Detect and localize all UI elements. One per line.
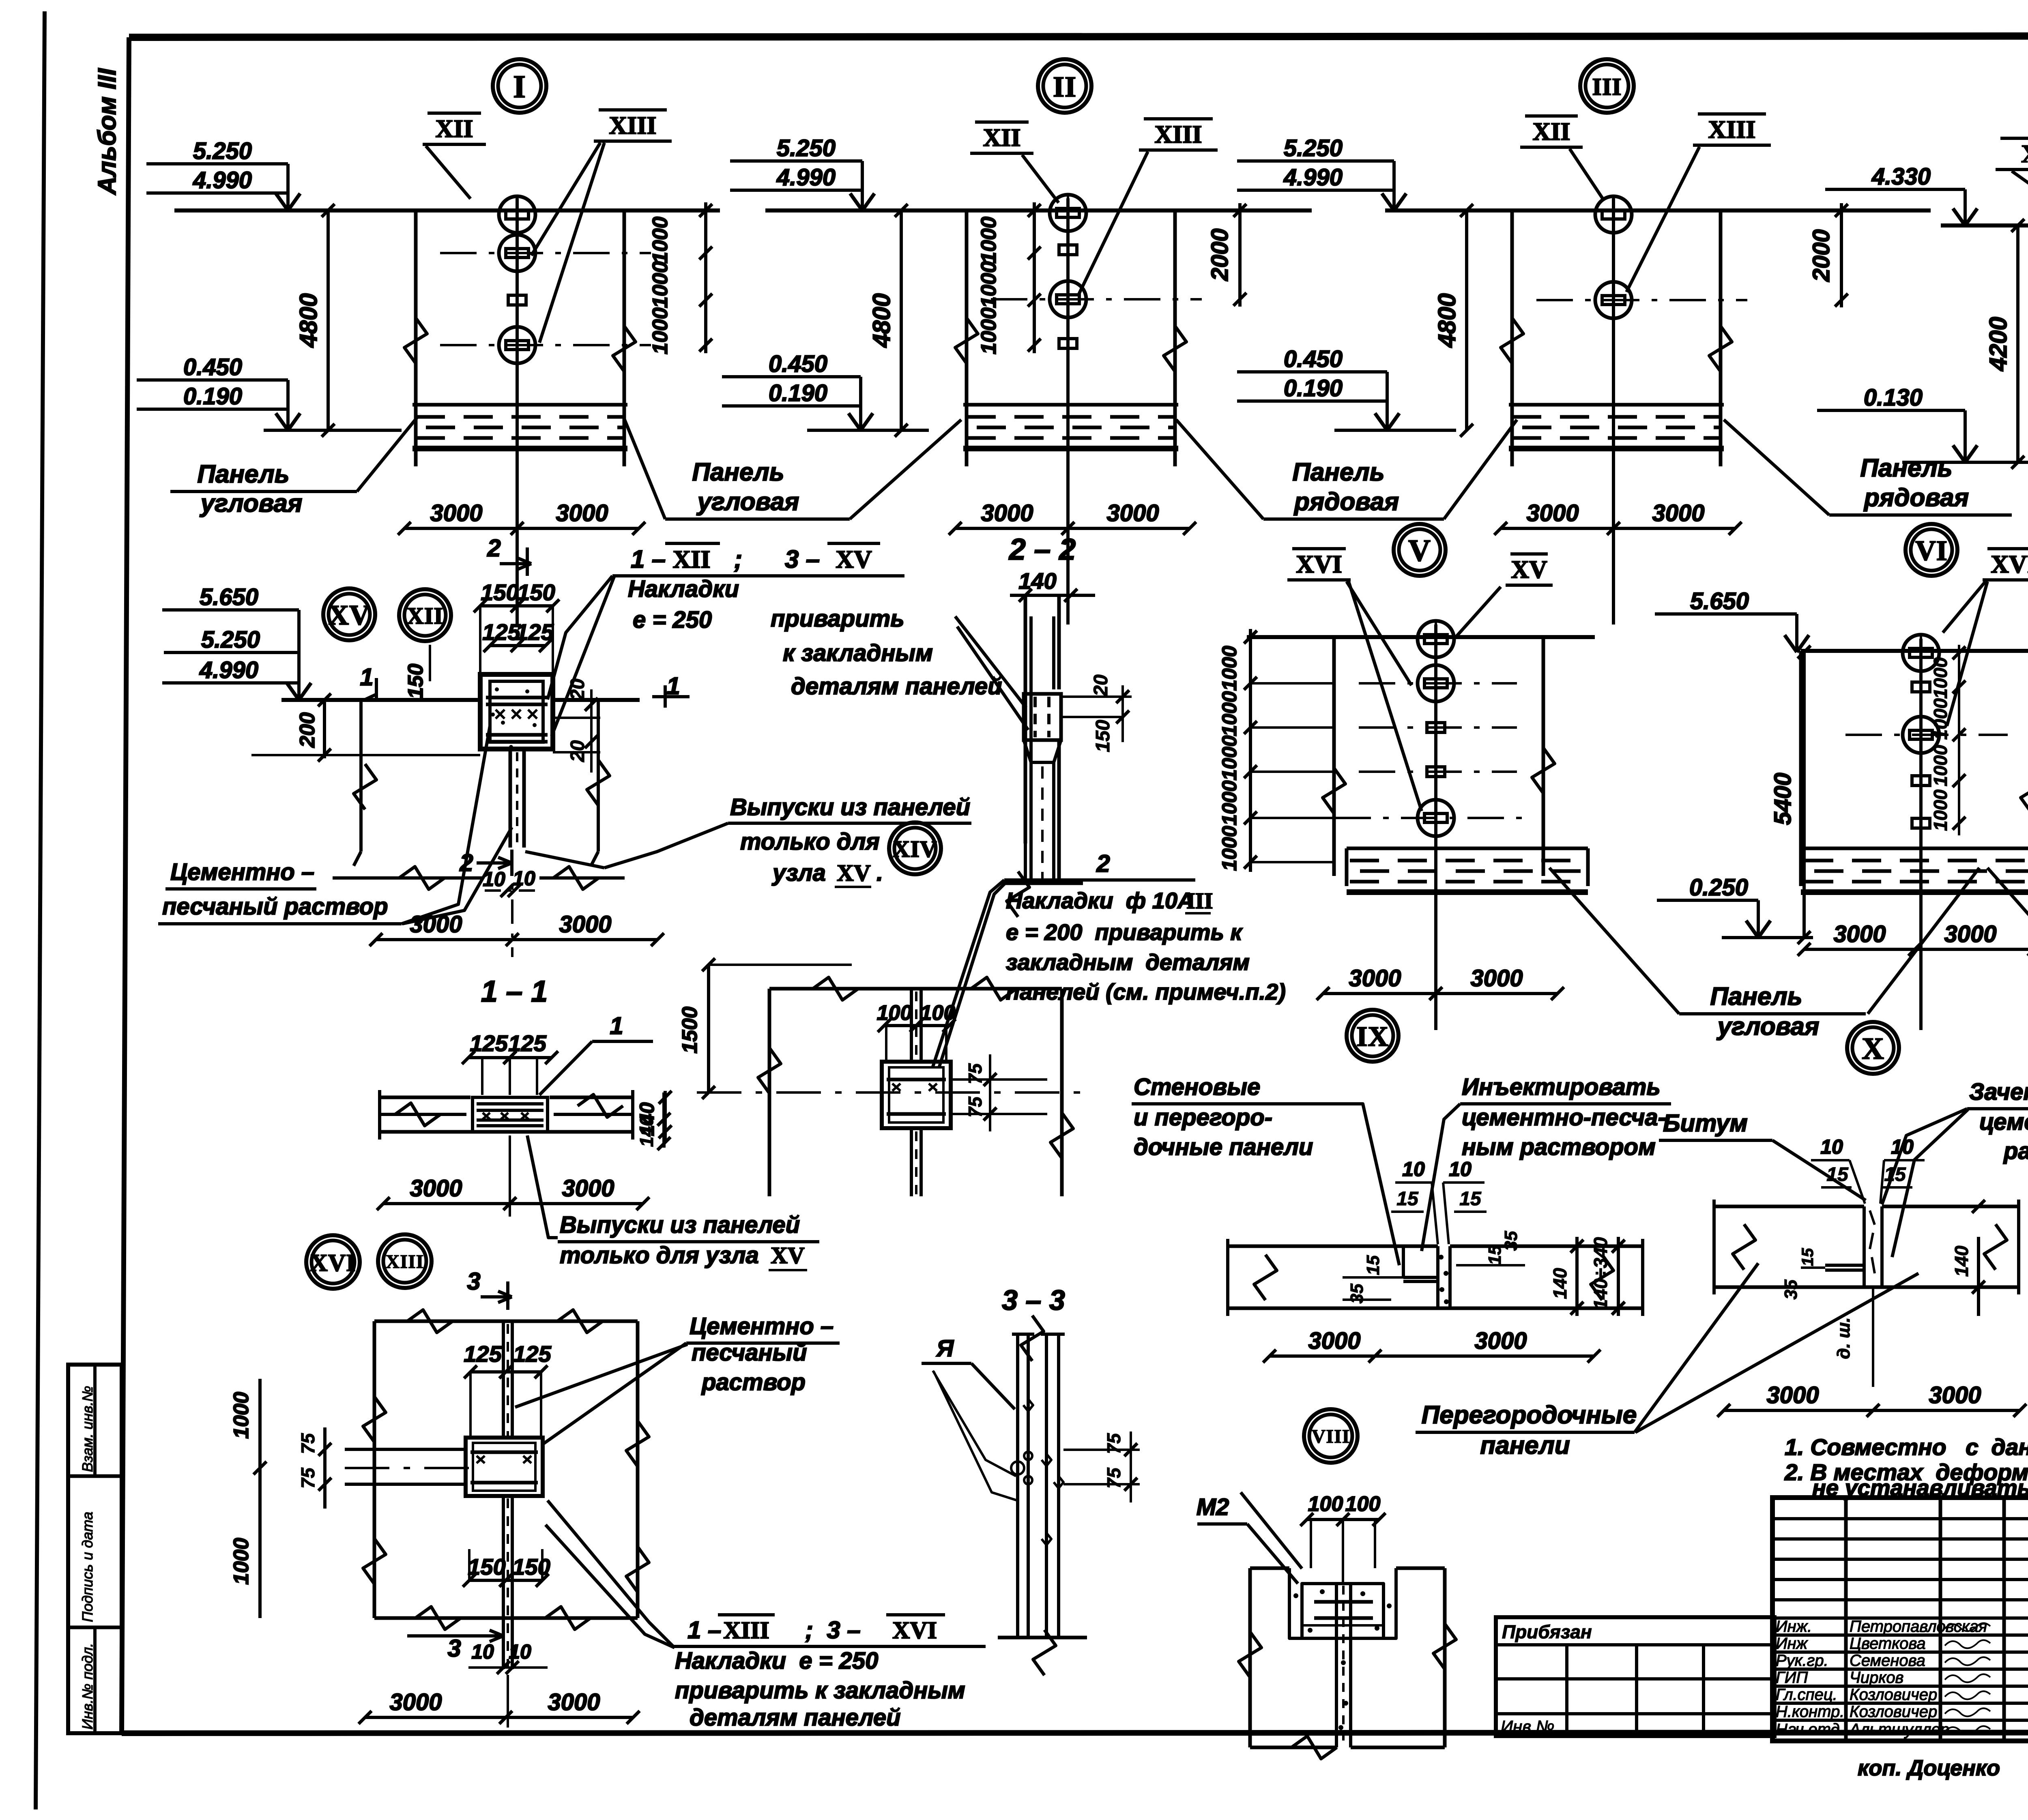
svg-text:150: 150 xyxy=(512,1554,550,1580)
detail IX panel band xyxy=(1228,1245,1438,1248)
view III water band xyxy=(1509,403,1724,407)
svg-text:Козловичер: Козловичер xyxy=(1850,1686,1937,1704)
svg-text:10: 10 xyxy=(509,1640,531,1663)
svg-text:XII: XII xyxy=(435,115,473,143)
svg-text:3000: 3000 xyxy=(1833,921,1886,947)
view I wall top line xyxy=(174,208,720,212)
svg-text:e = 250: e = 250 xyxy=(633,607,712,633)
svg-text:Цементно –: Цементно – xyxy=(170,859,314,885)
svg-text:2000: 2000 xyxy=(1808,229,1835,282)
svg-text:раствор: раствор xyxy=(701,1369,806,1395)
svg-text:Петропавловская: Петропавловская xyxy=(1850,1618,1987,1635)
svg-text:10: 10 xyxy=(483,868,505,891)
svg-text:XIV: XIV xyxy=(893,836,937,862)
view II wall top line xyxy=(765,208,1312,212)
view I anchor at 624 xyxy=(499,235,535,271)
svg-text:Зачеканить асбесто-: Зачеканить асбесто- xyxy=(1969,1079,2028,1105)
node badge XVI xyxy=(306,1235,360,1289)
svg-text:XV: XV xyxy=(836,546,872,573)
svg-text:5.650: 5.650 xyxy=(200,584,258,610)
svg-text:цементным: цементным xyxy=(1979,1109,2028,1135)
view V water band xyxy=(1347,847,1588,850)
view V centerline xyxy=(1434,625,1437,1030)
svg-text:XII: XII xyxy=(672,546,710,573)
svg-text:XV: XV xyxy=(837,860,871,886)
svg-text:3000: 3000 xyxy=(1474,1328,1527,1354)
view I 1000 spacing dim xyxy=(704,202,707,353)
svg-text:только для: только для xyxy=(740,828,880,855)
svg-text:Инъектировать: Инъектировать xyxy=(1462,1074,1661,1100)
section 2-2 joint xyxy=(1024,694,1061,740)
signature squiggles xyxy=(1945,1623,1990,1734)
view I dash-dot axis 851 xyxy=(440,344,651,346)
svg-text:10: 10 xyxy=(1449,1158,1472,1180)
detail XIV grout strip vertical xyxy=(910,989,913,1062)
left attachment table pribyazan xyxy=(1496,1617,1774,1736)
view III anchor at 529 xyxy=(1595,196,1632,233)
svg-text:Козловичер: Козловичер xyxy=(1850,1703,1937,1721)
svg-text:панели: панели xyxy=(1480,1432,1570,1459)
svg-text:Панель: Панель xyxy=(1292,458,1384,486)
svg-text:коп. Доценко: коп. Доценко xyxy=(1858,1756,2000,1780)
section 2-2 baseline xyxy=(1002,882,1083,885)
svg-text:XII: XII xyxy=(983,124,1020,152)
svg-text:XVI: XVI xyxy=(310,1249,356,1276)
svg-text:1 – 1: 1 – 1 xyxy=(481,974,548,1008)
detail IX dim 15 35 right xyxy=(1456,1264,1525,1266)
svg-text:2: 2 xyxy=(487,534,501,562)
detail XV-XII bottom dim 3000 3000 xyxy=(376,938,657,941)
svg-text:XII: XII xyxy=(1532,118,1570,146)
svg-text:VIII: VIII xyxy=(1312,1426,1350,1447)
svg-text:1 –: 1 – xyxy=(631,545,666,573)
section 2-2 leaders from text xyxy=(955,616,1026,708)
svg-text:15: 15 xyxy=(1396,1188,1419,1210)
view V anchors xyxy=(1418,621,1454,657)
svg-text:0.190: 0.190 xyxy=(1284,375,1343,401)
svg-text:1500: 1500 xyxy=(678,1007,702,1054)
svg-text:закладным деталям: закладным деталям xyxy=(1006,949,1250,975)
svg-text:;: ; xyxy=(734,545,743,573)
svg-text:3000: 3000 xyxy=(1652,500,1704,526)
node badge V xyxy=(1394,524,1446,576)
section 1-1 leader to vypuski text xyxy=(527,1135,558,1238)
svg-text:4.990: 4.990 xyxy=(1283,164,1343,191)
view V left spacing dim 1000x5 xyxy=(1249,629,1252,872)
svg-text:35: 35 xyxy=(1781,1279,1801,1299)
svg-text:2: 2 xyxy=(459,849,473,876)
svg-text:1000: 1000 xyxy=(1930,789,1951,831)
title block personnel rows xyxy=(1772,1616,2028,1620)
svg-text:Накладки: Накладки xyxy=(628,576,739,602)
svg-text:75: 75 xyxy=(965,1063,986,1084)
svg-text:.: . xyxy=(877,860,883,886)
view II bottom dimension 3000+3000 xyxy=(955,527,1190,530)
svg-text:XV: XV xyxy=(1511,556,1547,584)
svg-text:деталям панелей: деталям панелей xyxy=(690,1704,901,1731)
svg-text:рядовая: рядовая xyxy=(1863,484,1969,512)
svg-text:угловая: угловая xyxy=(1716,1013,1820,1041)
view I water band xyxy=(412,403,627,407)
svg-text:Панель: Панель xyxy=(692,458,784,486)
svg-text:1000: 1000 xyxy=(649,217,672,264)
svg-text:3000: 3000 xyxy=(1526,500,1579,526)
svg-text:140÷340: 140÷340 xyxy=(1590,1237,1611,1309)
svg-text:10: 10 xyxy=(1820,1135,1843,1158)
svg-text:только для узла: только для узла xyxy=(560,1242,759,1268)
svg-text:3000: 3000 xyxy=(1308,1328,1360,1354)
svg-text:Выпуски из панелей: Выпуски из панелей xyxy=(560,1212,800,1238)
detail XVI-XIII left dims 1000 1000 75 75 xyxy=(258,1379,262,1618)
dim 5400 xyxy=(1802,652,1806,938)
detail XV-XII grout column below joint xyxy=(509,749,512,848)
svg-text:3000: 3000 xyxy=(559,911,611,938)
detail XIV centerline horizontal xyxy=(697,1091,1087,1094)
svg-text:0.130: 0.130 xyxy=(1864,384,1923,411)
svg-text:XIV: XIV xyxy=(2021,140,2028,168)
svg-text:XV: XV xyxy=(328,600,370,631)
svg-text:I: I xyxy=(513,69,526,105)
view II anchor at 525 xyxy=(1050,195,1086,231)
sheet outer left edge line xyxy=(36,11,45,1809)
svg-text:3000: 3000 xyxy=(1349,965,1401,992)
view I height dim 4800 xyxy=(327,210,330,430)
svg-text:15: 15 xyxy=(1799,1248,1817,1266)
svg-text:3000: 3000 xyxy=(562,1175,614,1202)
svg-text:3000: 3000 xyxy=(1106,500,1159,526)
svg-text:Инж.: Инж. xyxy=(1776,1618,1812,1635)
svg-text:5400: 5400 xyxy=(1770,773,1796,825)
svg-text:5.250: 5.250 xyxy=(201,627,260,653)
view II panel right edge xyxy=(1173,210,1177,462)
node badge X xyxy=(1847,1022,1899,1074)
view III bottom dimension 3000+3000 xyxy=(1501,527,1735,530)
svg-text:3: 3 xyxy=(447,1635,461,1662)
svg-text:1 –: 1 – xyxy=(687,1616,721,1644)
svg-text:75: 75 xyxy=(1103,1467,1124,1489)
view VI dash axes xyxy=(1845,734,2008,736)
svg-text:ГИП: ГИП xyxy=(1776,1669,1808,1687)
svg-text:1000: 1000 xyxy=(1218,646,1241,691)
view V dash axes xyxy=(1359,682,1517,685)
label peregorodochnye paneli for VIII xyxy=(1241,1492,1302,1569)
section 3-3 dims 75 75 xyxy=(1063,1449,1140,1451)
svg-text:100: 100 xyxy=(1308,1492,1343,1516)
view V panel edges xyxy=(1332,637,1336,876)
view VI anchors xyxy=(1903,635,1939,671)
svg-text:2 – 2: 2 – 2 xyxy=(1008,532,1076,566)
node badge II xyxy=(1038,59,1091,113)
svg-text:15: 15 xyxy=(1363,1255,1383,1275)
node badge I xyxy=(493,59,546,113)
detail XVI-XIII panel face rect xyxy=(374,1320,638,1323)
svg-text:VI: VI xyxy=(1915,535,1948,567)
svg-text:к закладным: к закладным xyxy=(783,640,933,666)
svg-text:Панель: Панель xyxy=(1710,983,1802,1011)
svg-text:4800: 4800 xyxy=(295,293,322,348)
svg-text:0.450: 0.450 xyxy=(1284,346,1343,372)
section 2-2 legs below xyxy=(1029,762,1033,882)
node badge VIII xyxy=(1304,1409,1358,1463)
svg-text:Цветкова: Цветкова xyxy=(1850,1635,1926,1653)
detail VIII panel rect xyxy=(1250,1567,1289,1570)
svg-text:М2: М2 xyxy=(1197,1494,1229,1520)
detail X bottom dim 3000 3000 xyxy=(1724,1409,2020,1412)
svg-text:Инв.№: Инв.№ xyxy=(1501,1717,1554,1736)
svg-text:3000: 3000 xyxy=(389,1689,442,1715)
view I panel left edge xyxy=(414,210,418,462)
svg-text:Альбом III: Альбом III xyxy=(93,68,121,195)
view VI bottom dim 3000 3000 xyxy=(1804,948,2028,951)
svg-text:угловая: угловая xyxy=(696,488,799,516)
svg-text:Инж: Инж xyxy=(1776,1635,1808,1653)
view I lower ref line xyxy=(264,429,402,432)
view III right dim 2000 xyxy=(1840,203,1843,307)
svg-text:125: 125 xyxy=(513,1341,551,1367)
svg-text:Выпуски из панелей: Выпуски из панелей xyxy=(730,794,970,820)
svg-text:4200: 4200 xyxy=(1985,317,2012,371)
svg-text:приварить: приварить xyxy=(771,605,904,632)
svg-text:5.650: 5.650 xyxy=(1690,588,1749,614)
svg-text:Прибязан: Прибязан xyxy=(1502,1621,1592,1642)
svg-text:1: 1 xyxy=(360,663,373,691)
detail XIV dim 140 xyxy=(662,1092,666,1148)
detail XIV panel face rect xyxy=(769,987,1062,991)
svg-text:1000: 1000 xyxy=(1930,698,1951,740)
svg-text:1000: 1000 xyxy=(230,1538,253,1585)
view II anchor at 738 xyxy=(1050,281,1086,318)
svg-text:Панель: Панель xyxy=(1860,454,1952,482)
sheet inner frame top border (thick) xyxy=(129,36,2028,37)
svg-text:150: 150 xyxy=(404,664,428,699)
left stamp column table xyxy=(68,1365,122,1733)
svg-text:35: 35 xyxy=(1501,1231,1521,1251)
view VI wall top line xyxy=(1801,649,2028,653)
svg-text:1000: 1000 xyxy=(649,261,672,308)
svg-text:15: 15 xyxy=(1826,1164,1849,1185)
detail XV-XII break marks xyxy=(354,764,376,809)
svg-text:200: 200 xyxy=(296,713,319,748)
svg-text:10: 10 xyxy=(1891,1135,1914,1158)
section 1-1 bottom dim 3000 3000 xyxy=(383,1202,643,1205)
detail IX right dims 140 140-340 xyxy=(1575,1237,1579,1316)
view IV lower ref line xyxy=(1902,461,2028,464)
view I anchor at 851 xyxy=(499,327,535,363)
section 1-1 panel band xyxy=(380,1096,470,1099)
view II panel centerline xyxy=(1066,198,1070,625)
view II dash-dot axis 738 xyxy=(991,298,1202,300)
svg-text:5.250: 5.250 xyxy=(777,135,836,161)
svg-text:XVI: XVI xyxy=(1991,551,2028,578)
section 2-2 wall lines xyxy=(1024,595,1027,843)
view III wall top line xyxy=(1385,208,1931,212)
svg-text:3000: 3000 xyxy=(556,500,608,526)
svg-text:75: 75 xyxy=(965,1096,986,1118)
svg-text:3000: 3000 xyxy=(430,500,482,526)
view IV height dim 4200 xyxy=(2016,225,2019,462)
svg-text:15: 15 xyxy=(1884,1164,1906,1185)
view I anchor at 529 xyxy=(499,196,535,233)
svg-text:4.990: 4.990 xyxy=(193,167,252,193)
svg-text:150: 150 xyxy=(1092,720,1114,752)
view II lower ref line xyxy=(807,429,929,432)
view II 1000 spacing dim xyxy=(1033,202,1036,353)
svg-text:4.990: 4.990 xyxy=(776,164,836,191)
svg-text:Альтшуллер: Альтшуллер xyxy=(1849,1721,1949,1738)
title block verticals xyxy=(1844,1498,1848,1741)
svg-text:1000: 1000 xyxy=(230,1392,253,1439)
svg-text:Перегородочные: Перегородочные xyxy=(1422,1401,1637,1429)
svg-text:XVI: XVI xyxy=(1296,551,1342,578)
svg-text:Накладки ф 10А: Накладки ф 10А xyxy=(1006,888,1194,913)
svg-text:XV: XV xyxy=(771,1242,805,1268)
detail X grout strip xyxy=(1863,1206,1866,1287)
detail XVI-XIII horizontal panel from left xyxy=(345,1448,466,1451)
svg-text:Гл.спец.: Гл.спец. xyxy=(1776,1686,1837,1704)
svg-text:4.990: 4.990 xyxy=(199,657,258,683)
view VI right spacing dim 1000s xyxy=(1958,645,1960,835)
view II anchor at 616 xyxy=(1059,245,1077,255)
svg-text:1000: 1000 xyxy=(649,307,672,354)
svg-text:XIII: XIII xyxy=(1154,121,1202,148)
svg-text:75: 75 xyxy=(297,1433,318,1454)
view I dash-dot axis 624 xyxy=(440,252,651,254)
view III panel left edge xyxy=(1510,210,1514,462)
detail X panel band xyxy=(1714,1205,1864,1208)
svg-text:5.250: 5.250 xyxy=(1284,135,1343,161)
svg-text:Н.контр.: Н.контр. xyxy=(1776,1703,1844,1721)
detail XIV dim 1500 xyxy=(707,965,710,1092)
svg-text:3000: 3000 xyxy=(1944,921,1996,947)
view I panel centerline xyxy=(516,198,519,625)
svg-text:цементно-песча-: цементно-песча- xyxy=(1462,1104,1666,1131)
svg-text:Чирков: Чирков xyxy=(1850,1669,1903,1687)
detail IX step joint xyxy=(1402,1246,1405,1277)
svg-text:125: 125 xyxy=(482,619,520,645)
view III height dim 4800 xyxy=(1465,210,1468,430)
detail VIII cup xyxy=(1289,1568,1396,1638)
svg-text:3 –: 3 – xyxy=(785,545,820,573)
detail XIV joint box xyxy=(882,1062,951,1128)
svg-text:0.450: 0.450 xyxy=(183,354,242,380)
svg-text:10: 10 xyxy=(471,1640,494,1663)
svg-text:1000: 1000 xyxy=(977,261,1001,308)
svg-text:; 3 –: ; 3 – xyxy=(805,1616,861,1644)
title block top-left thin rows xyxy=(1772,1517,2028,1520)
view II panel left edge xyxy=(965,210,969,462)
svg-text:140: 140 xyxy=(636,1116,657,1147)
section 3-3 double wall lines xyxy=(1016,1334,1019,1636)
view III panel centerline xyxy=(1612,198,1615,625)
svg-text:0.250: 0.250 xyxy=(1689,874,1748,901)
detail IX grout column xyxy=(1436,1246,1439,1308)
svg-text:5.250: 5.250 xyxy=(193,138,252,164)
detail XV-XII top line xyxy=(281,698,480,702)
svg-text:125: 125 xyxy=(464,1341,502,1367)
detail IX bottom dim 3000 3000 xyxy=(1270,1354,1594,1358)
detail VIII anchor bolt xyxy=(1335,1584,1338,1747)
svg-text:140: 140 xyxy=(1549,1268,1570,1299)
sheet inner frame bottom border xyxy=(122,1732,2028,1733)
svg-text:Взам. инв.№: Взам. инв.№ xyxy=(79,1386,96,1472)
svg-text:IX: IX xyxy=(1356,1021,1389,1052)
title block outer box xyxy=(1772,1498,2028,1741)
svg-text:10: 10 xyxy=(1402,1158,1425,1180)
section 3-3 joint features xyxy=(1011,1462,1024,1474)
view I bottom dimension 3000+3000 xyxy=(404,527,639,530)
svg-text:100: 100 xyxy=(920,1001,956,1025)
svg-text:3000: 3000 xyxy=(548,1689,600,1715)
detail XVI-XIII bottom dim 3000 3000 xyxy=(365,1716,633,1719)
svg-text:приварить к закладным: приварить к закладным xyxy=(675,1677,965,1704)
svg-text:0.450: 0.450 xyxy=(769,351,827,377)
svg-text:угловая: угловая xyxy=(200,489,303,517)
svg-text:1000: 1000 xyxy=(1218,735,1241,780)
svg-text:3000: 3000 xyxy=(410,1175,462,1202)
svg-text:XVI: XVI xyxy=(892,1617,937,1644)
svg-text:1000: 1000 xyxy=(1218,780,1241,825)
svg-text:XIII: XIII xyxy=(609,112,656,140)
svg-text:20: 20 xyxy=(1090,674,1112,697)
svg-text:1000: 1000 xyxy=(1930,745,1951,786)
sheet inner frame left border xyxy=(122,37,129,1733)
svg-text:4800: 4800 xyxy=(1433,293,1461,348)
svg-text:Накладки e = 250: Накладки e = 250 xyxy=(675,1648,878,1674)
svg-text:140: 140 xyxy=(1018,568,1056,594)
svg-text:75: 75 xyxy=(297,1467,318,1489)
svg-text:Рук.гр.: Рук.гр. xyxy=(1776,1652,1828,1670)
svg-text:1000: 1000 xyxy=(977,217,1001,264)
svg-text:4.330: 4.330 xyxy=(1871,163,1931,190)
view III lower ref line xyxy=(1334,429,1456,432)
detail X step lines xyxy=(1825,1264,1864,1267)
view I panel right edge xyxy=(623,210,626,462)
svg-text:XIII: XIII xyxy=(1708,116,1755,144)
svg-text:X: X xyxy=(1862,1032,1884,1066)
svg-text:75: 75 xyxy=(1103,1433,1124,1454)
svg-text:XII: XII xyxy=(407,603,443,629)
view II anchor at 847 xyxy=(1059,339,1077,348)
svg-text:2000: 2000 xyxy=(1207,228,1233,281)
svg-text:10: 10 xyxy=(513,867,535,890)
svg-text:XIII: XIII xyxy=(723,1617,769,1644)
detail XIV dim 75 75 xyxy=(951,1078,1047,1081)
node badge XIV xyxy=(889,822,941,874)
node badge XIII xyxy=(378,1234,432,1288)
svg-text:4800: 4800 xyxy=(868,293,895,348)
svg-text:2: 2 xyxy=(1096,850,1110,877)
svg-text:100: 100 xyxy=(1345,1492,1381,1516)
view V bottom dim 3000 3000 xyxy=(1323,992,1558,995)
svg-text:рядовая: рядовая xyxy=(1293,488,1399,516)
svg-text:Стеновые: Стеновые xyxy=(1134,1074,1260,1100)
svg-text:V: V xyxy=(1408,534,1431,568)
svg-text:II: II xyxy=(1053,71,1076,103)
svg-text:Инв.№ подл.: Инв.№ подл. xyxy=(79,1643,96,1730)
svg-text:100: 100 xyxy=(877,1001,912,1025)
view II right dim 2000 xyxy=(1238,203,1242,307)
svg-text:д. ш.: д. ш. xyxy=(1834,1318,1854,1359)
view III panel right edge xyxy=(1719,210,1723,462)
svg-text:Подпись и дата: Подпись и дата xyxy=(79,1512,96,1622)
svg-text:дочные панели: дочные панели xyxy=(1134,1134,1313,1160)
svg-text:Цементно –: Цементно – xyxy=(690,1313,834,1339)
detail XV-XII joint box xyxy=(480,674,553,749)
view VI panel edges xyxy=(1799,651,1803,876)
svg-text:III: III xyxy=(1186,889,1213,914)
svg-text:узла: узла xyxy=(771,860,826,886)
svg-text:0.190: 0.190 xyxy=(769,380,827,406)
